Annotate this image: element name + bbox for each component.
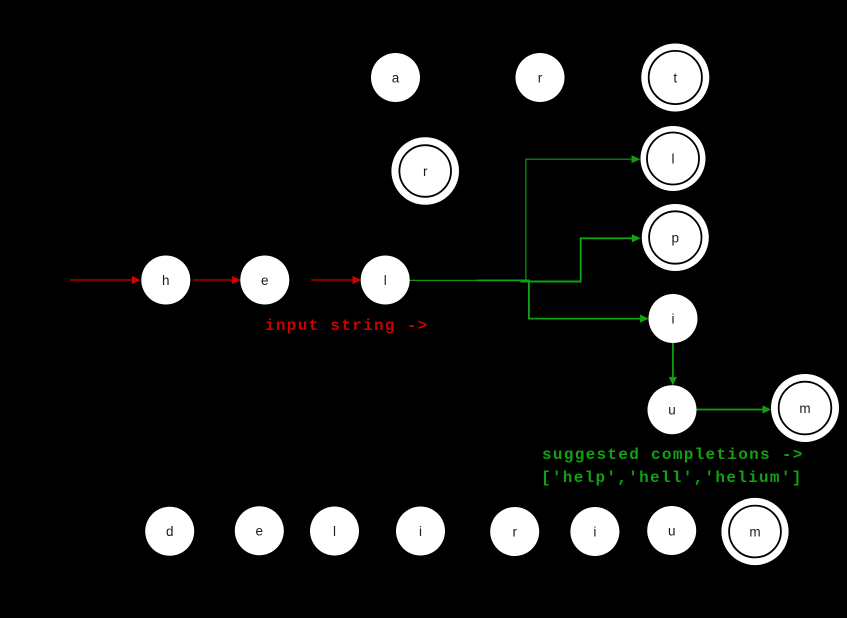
wire start arrow into h (70, 276, 141, 284)
node r (bottom row) (490, 507, 539, 556)
svg-text:h: h (162, 273, 170, 288)
svg-text:i: i (672, 311, 675, 326)
svg-text:['help','hell','helium']: ['help','hell','helium'] (541, 469, 803, 487)
node u (bottom row) (647, 506, 696, 555)
svg-text:input string ->: input string -> (265, 317, 429, 335)
node e (bottom row) (235, 506, 284, 555)
wire i to u (green, down) (669, 343, 677, 386)
node a (371, 53, 420, 102)
svg-text:e: e (261, 273, 269, 288)
svg-text:i: i (419, 524, 422, 539)
svg-text:t: t (673, 70, 677, 85)
wire u to m (green) (696, 405, 771, 413)
svg-text:r: r (423, 164, 428, 179)
node l2 (accepting, double circle) (641, 126, 706, 191)
node r (accepting, double circle) (391, 137, 459, 205)
svg-text:d: d (166, 524, 174, 539)
node i (bottom row) (396, 507, 445, 556)
svg-text:u: u (668, 523, 676, 538)
wire into l (red) (311, 276, 361, 284)
svg-text:r: r (512, 524, 517, 539)
node u (648, 385, 697, 434)
node d (bottom row) (145, 507, 194, 556)
svg-text:l: l (672, 151, 675, 166)
svg-text:m: m (749, 524, 760, 539)
node i (649, 294, 698, 343)
node p (accepting, double circle) (642, 204, 709, 271)
svg-text:a: a (392, 70, 400, 85)
node m (accepting, double circle) (771, 374, 839, 442)
node t (accepting, double circle) (641, 44, 709, 112)
node m (bottom row, accepting double circle) (721, 498, 788, 565)
svg-text:e: e (256, 524, 264, 539)
node h (141, 256, 190, 305)
svg-text:suggested completions ->: suggested completions -> (542, 446, 804, 464)
svg-text:p: p (672, 230, 680, 245)
wire h to e (red) (193, 276, 241, 284)
svg-text:i: i (593, 524, 596, 539)
svg-text:l: l (384, 273, 387, 288)
svg-text:r: r (538, 70, 543, 85)
node r (top) (516, 53, 565, 102)
wire l to node i (green, right then down) (477, 280, 649, 322)
svg-text:u: u (668, 403, 676, 418)
node i2 (bottom row) (570, 507, 619, 556)
wire l to node l2 (green, right then up) (409, 155, 640, 280)
node e (240, 256, 289, 305)
svg-text:m: m (799, 401, 810, 416)
node l (bottom row) (310, 507, 359, 556)
wire l to node p (green) (520, 234, 640, 281)
node l (361, 256, 410, 305)
svg-text:l: l (333, 524, 336, 539)
